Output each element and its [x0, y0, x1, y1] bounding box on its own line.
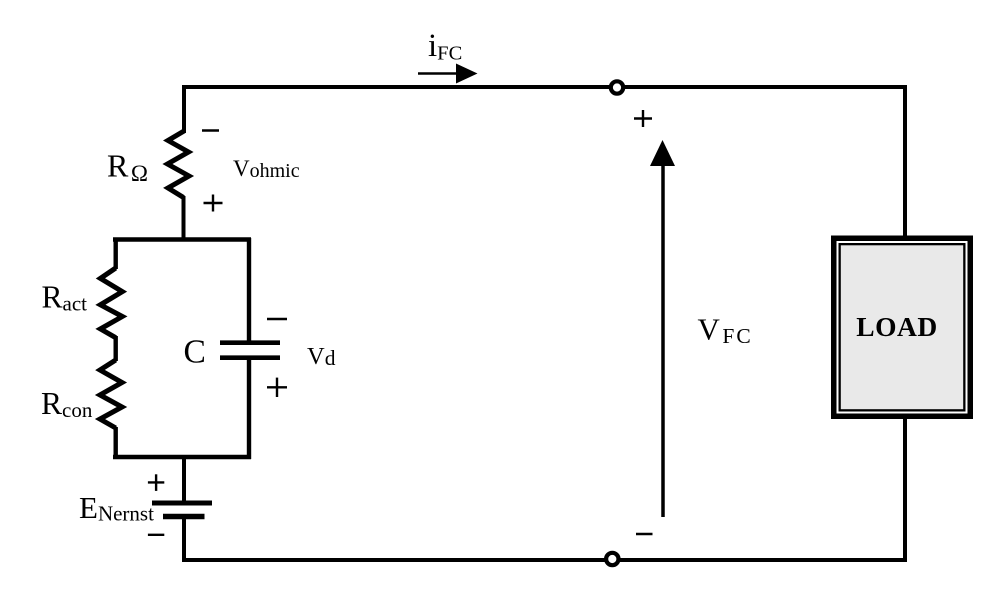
- load box: [831, 236, 973, 420]
- wire parallel box top edge: [113, 237, 251, 241]
- svg-text:ENernst: ENernst: [79, 490, 154, 525]
- wire parallel box bottom edge: [113, 455, 251, 459]
- svg-text:C: C: [184, 334, 206, 371]
- node bottom terminal: [606, 553, 618, 565]
- svg-text:VFC: VFC: [698, 312, 753, 348]
- plus sign (v_d bottom): [267, 378, 287, 397]
- wire top horizontal: [184, 87, 905, 133]
- minus sign (v_d top): [267, 318, 287, 320]
- plus sign (v_ohmic bottom): [204, 195, 223, 212]
- svg-text:iFC: iFC: [428, 28, 462, 65]
- wire box to battery: [182, 455, 186, 501]
- wire left branch lower: [113, 427, 117, 459]
- wire right vertical (top: into LOAD): [903, 85, 907, 237]
- node top terminal: [611, 81, 623, 93]
- minus sign (V_FC bottom): [636, 533, 653, 535]
- resistor Ract: [100, 268, 122, 338]
- minus sign (battery bottom): [148, 534, 164, 536]
- svg-text:RΩ: RΩ: [107, 148, 148, 187]
- resistor R_Omega: [168, 131, 190, 198]
- svg-text:Vd: Vd: [307, 343, 336, 370]
- plus sign (battery top): [148, 474, 164, 491]
- plus sign (V_FC top): [634, 110, 652, 127]
- arrow V_FC: [650, 140, 675, 517]
- svg-text:Rcon: Rcon: [41, 386, 93, 422]
- wire between Ract and Rcon: [113, 336, 117, 361]
- svg-text:LOAD: LOAD: [856, 311, 937, 342]
- wire bottom horizontal: [184, 514, 905, 562]
- svg-text:Ract: Ract: [42, 280, 88, 316]
- resistor Rcon: [100, 360, 122, 428]
- wire right branch upper (to capacitor): [247, 238, 251, 341]
- wire left branch upper: [113, 238, 117, 269]
- svg-text:Vohmic: Vohmic: [233, 156, 300, 182]
- current arrow iFC: [418, 64, 478, 84]
- minus sign (v_ohmic top): [202, 129, 219, 131]
- capacitor C plates: [220, 343, 280, 358]
- wire right vertical (bottom: out of LOAD): [903, 418, 907, 560]
- battery E_Nernst plates: [152, 503, 212, 517]
- wire R_Omega to parallel box: [182, 196, 186, 241]
- wire right branch lower (from capacitor): [247, 359, 251, 459]
